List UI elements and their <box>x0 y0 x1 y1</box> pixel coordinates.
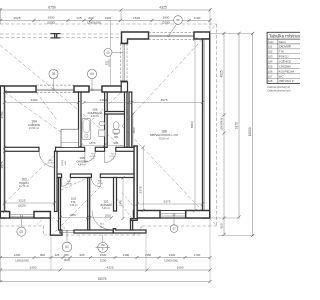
south wall pokoj segment a <box>0 212 9 219</box>
svg-text:725: 725 <box>76 16 81 20</box>
entry door mat dots <box>99 222 102 225</box>
svg-text:102: 102 <box>268 50 273 54</box>
interior horizontal dim living room south <box>137 203 202 205</box>
svg-text:850: 850 <box>220 223 224 228</box>
toilet <box>113 122 119 130</box>
porch outline bottom (dashed) <box>44 234 143 236</box>
north wall left wing segment b <box>74 86 89 92</box>
pantry diagonal 2 <box>116 198 133 220</box>
bathroom width dim <box>81 144 105 146</box>
living room south wall segment a <box>134 211 161 219</box>
utility room west wall <box>59 178 61 231</box>
svg-text:5375: 5375 <box>164 200 171 204</box>
hall south wall segment c <box>100 174 134 178</box>
wc-bathroom divider wall <box>105 92 108 147</box>
svg-text:11,76 m²: 11,76 m² <box>19 184 29 188</box>
window mark circle 02 with leader <box>17 227 26 236</box>
svg-text:(2625): (2625) <box>18 203 26 207</box>
svg-text:5,06 m²: 5,06 m² <box>102 207 110 210</box>
svg-text:06: 06 <box>176 18 180 22</box>
svg-text:Celková plocha [m²]: Celková plocha [m²] <box>267 85 290 89</box>
north wall left wing segment c <box>102 86 122 92</box>
pantry vertical dim <box>122 178 124 219</box>
svg-text:07: 07 <box>172 227 176 231</box>
wc north wall <box>105 112 127 115</box>
vestibule door arc and leaf <box>91 178 100 187</box>
porch window dot <box>66 231 68 233</box>
svg-text:1190: 1190 <box>123 253 130 257</box>
level mark circle with crosshair <box>98 242 108 252</box>
bottom dimension chain line 1 <box>0 257 210 259</box>
svg-text:Tabulka místností: Tabulka místností <box>269 34 300 39</box>
svg-text:CHODBA: CHODBA <box>279 64 291 68</box>
svg-text:(2000): (2000) <box>162 21 170 25</box>
svg-text:(1970): (1970) <box>97 183 103 185</box>
svg-text:1150: 1150 <box>145 253 152 257</box>
svg-text:T.M.: T.M. <box>279 50 285 54</box>
living room east wall inner finish line <box>204 39 206 211</box>
window mark circle 04 with leader <box>87 69 96 78</box>
extension line x210 top <box>209 8 211 33</box>
living room south window dot <box>173 214 175 216</box>
svg-text:1700: 1700 <box>194 253 201 257</box>
right dimension line 2 <box>238 33 240 217</box>
svg-text:3375: 3375 <box>139 186 143 193</box>
window mark circle 01 with leader <box>62 242 72 252</box>
extension line window dim x110 <box>110 20 112 86</box>
svg-text:4,84 m²: 4,84 m² <box>78 164 87 167</box>
svg-text:03: 03 <box>52 72 56 76</box>
svg-text:02: 02 <box>20 230 24 234</box>
svg-text:104: 104 <box>268 59 273 63</box>
svg-text:1100: 1100 <box>194 16 201 20</box>
svg-text:105: 105 <box>79 156 84 160</box>
entry door arc <box>92 211 111 230</box>
bathroom door arc and leaf <box>85 151 96 162</box>
middle wall segment 3 <box>95 147 104 151</box>
svg-text:101: 101 <box>268 45 273 49</box>
svg-text:Celková plocha bytu: Celková plocha bytu <box>267 89 291 93</box>
porch jog vertical wall <box>131 220 133 230</box>
interior horizontal dim chain bathroom <box>84 102 129 104</box>
svg-text:1380: 1380 <box>69 213 76 217</box>
svg-text:OBÝVACÍ POKOJ + KK: OBÝVACÍ POKOJ + KK <box>150 133 178 137</box>
svg-text:108: 108 <box>161 129 167 133</box>
pokoj door arc <box>39 151 56 167</box>
living room north window glazing lines <box>149 34 195 36</box>
svg-text:1200(1000): 1200(1000) <box>15 258 29 262</box>
roof overhang top edge (dashed) <box>0 23 217 25</box>
svg-text:2875: 2875 <box>0 161 4 168</box>
utility room door arc and leaf <box>62 178 71 187</box>
right dimension line 3 <box>252 33 254 235</box>
svg-text:105: 105 <box>268 64 273 68</box>
svg-text:900: 900 <box>113 141 118 145</box>
living room south window <box>160 213 186 215</box>
extension line bottom left <box>0 218 1 282</box>
west window jamb caps <box>120 42 127 44</box>
svg-text:LOŽNICE: LOŽNICE <box>279 58 291 63</box>
svg-text:1900: 1900 <box>105 16 112 20</box>
bathtub <box>82 119 91 140</box>
svg-text:2010: 2010 <box>105 213 112 217</box>
roof hip diagonal se <box>122 126 217 226</box>
vestibule width dim <box>90 217 112 219</box>
svg-text:WC: WC <box>114 136 118 139</box>
svg-text:1200(1000): 1200(1000) <box>87 20 101 24</box>
porch window <box>62 230 74 232</box>
living room west french window <box>120 44 122 82</box>
svg-text:3350: 3350 <box>30 266 37 270</box>
pergola edge line 2 (dashed) <box>0 37 122 39</box>
svg-text:ZÁDVEŘÍ: ZÁDVEŘÍ <box>279 44 291 49</box>
svg-text:3675: 3675 <box>161 98 168 102</box>
vestibule east wall <box>114 178 117 212</box>
room table top right <box>267 32 302 83</box>
bathroom west wall / bedroom east wall <box>79 92 82 147</box>
svg-text:1525: 1525 <box>133 16 140 20</box>
svg-text:2525: 2525 <box>14 16 21 20</box>
svg-text:WC: WC <box>279 74 284 78</box>
porch roof hip diagonal long <box>52 186 101 235</box>
svg-text:1500: 1500 <box>118 199 122 206</box>
roof hip diagonal ne <box>122 24 217 126</box>
wc east wall <box>125 92 128 147</box>
svg-text:(2020): (2020) <box>62 160 64 167</box>
svg-text:KOUPELNA: KOUPELNA <box>279 69 294 73</box>
washing machine <box>99 130 105 137</box>
porch south wall segment b <box>74 230 113 233</box>
extension line x121 top <box>120 11 122 20</box>
svg-text:106: 106 <box>268 69 273 73</box>
window mark circle 03 with leader <box>49 69 58 78</box>
extension line bottom right <box>209 218 211 282</box>
leader from circle 06 to window dot <box>169 24 177 35</box>
svg-text:04: 04 <box>90 72 94 76</box>
svg-text:900: 900 <box>40 253 45 257</box>
svg-text:(1000/900): (1000/900) <box>220 118 224 131</box>
svg-text:3225: 3225 <box>19 199 26 203</box>
living room west wall lower <box>134 146 137 219</box>
svg-text:1,46 m²: 1,46 m² <box>69 204 77 207</box>
svg-text:102: 102 <box>71 197 76 201</box>
svg-text:6750: 6750 <box>48 6 56 10</box>
bottom dimension chain line 2 <box>0 269 210 271</box>
interior vertical dim living room east <box>194 39 196 211</box>
svg-text:05: 05 <box>106 50 110 54</box>
svg-text:6,30 m²: 6,30 m² <box>91 115 100 118</box>
svg-text:13,50 m²: 13,50 m² <box>29 126 39 130</box>
middle wall bedroom-pokoj west part <box>5 147 40 151</box>
right dimension line 1 <box>223 33 225 234</box>
svg-text:[600]: [600] <box>64 258 70 262</box>
svg-text:425: 425 <box>55 253 60 257</box>
living room west wall upper block <box>121 82 127 92</box>
svg-text:3500: 3500 <box>177 266 184 270</box>
south wall pokoj segment b <box>34 212 50 219</box>
extension line porch east <box>145 233 147 271</box>
living room east wall <box>203 39 210 218</box>
svg-text:1500: 1500 <box>100 253 107 257</box>
svg-text:4325: 4325 <box>107 266 114 270</box>
svg-text:15075: 15075 <box>98 277 107 281</box>
pokoj east wall <box>55 151 58 211</box>
svg-text:01: 01 <box>65 245 69 249</box>
window in north wall <box>88 86 90 92</box>
utility room east wall <box>88 178 90 231</box>
svg-text:108: 108 <box>268 79 273 83</box>
roof valley diagonal left <box>5 92 79 144</box>
porch roof corner jog (dashed) <box>43 226 45 235</box>
porch south wall segment a <box>60 230 62 233</box>
north wall left wing segment a <box>0 86 36 92</box>
svg-text:1500: 1500 <box>132 127 136 134</box>
porch roof diagonal tm <box>61 178 88 191</box>
living room south wall segment b <box>186 211 210 219</box>
living room north window dashed lintel <box>149 32 195 34</box>
svg-text:101: 101 <box>103 200 108 204</box>
svg-text:1575: 1575 <box>89 141 96 145</box>
west wall <box>0 86 4 218</box>
washbasin <box>99 121 105 125</box>
svg-text:905: 905 <box>79 253 84 257</box>
svg-text:8300: 8300 <box>190 121 194 128</box>
interior horizontal dim chain bedroom <box>5 102 79 104</box>
shaft wall east of wc <box>129 92 132 147</box>
extension line right terrace <box>218 234 254 236</box>
svg-text:150: 150 <box>101 244 106 247</box>
svg-text:(2250): (2250) <box>107 59 111 67</box>
interior horizontal dim chain living room <box>132 102 203 104</box>
north opening marker dot <box>53 89 55 91</box>
interior vertical dim living room west <box>142 147 144 210</box>
svg-text:1900: 1900 <box>163 16 170 20</box>
svg-text:2200: 2200 <box>100 258 107 262</box>
svg-text:4025: 4025 <box>220 70 224 77</box>
roof overhang right edge (dashed) <box>216 24 218 226</box>
svg-text:(1970): (1970) <box>66 184 72 186</box>
pergola column <box>51 33 61 35</box>
north window marker dot <box>91 89 93 91</box>
wardrobe in bedroom corner <box>61 129 79 147</box>
roof overhang bottom right edge (dashed) <box>142 225 217 227</box>
svg-text:4400: 4400 <box>31 98 38 102</box>
svg-text:OBÝVACÍ P: OBÝVACÍ P <box>279 79 294 83</box>
porch corner hip diagonal se (dashed) <box>53 217 65 229</box>
wc interior vertical dim <box>132 114 134 147</box>
window mark circle 07 with leader <box>170 225 178 233</box>
svg-text:1200: 1200 <box>14 253 21 257</box>
south window pokoj <box>10 214 34 216</box>
porch jog horizontal wall <box>131 219 138 221</box>
svg-text:1300: 1300 <box>169 253 176 257</box>
svg-text:1900: 1900 <box>48 16 55 20</box>
svg-text:106: 106 <box>92 108 97 112</box>
utility room width dim <box>61 216 88 218</box>
middle wall segment 4 <box>116 147 134 151</box>
porch west edge <box>50 218 62 235</box>
wc door arc and leaf <box>105 151 116 162</box>
pokoj width dim <box>5 202 55 204</box>
svg-text:107: 107 <box>268 74 273 78</box>
roof hip diagonal nw <box>0 45 122 146</box>
extension line x0 top <box>0 8 1 24</box>
porch step wall east of entry <box>113 229 146 233</box>
svg-text:(1970): (1970) <box>47 163 53 165</box>
svg-text:1200(1000): 1200(1000) <box>164 258 178 262</box>
pantry diagonal 1 <box>122 193 137 211</box>
top dimension line total <box>0 9 210 11</box>
svg-text:600: 600 <box>64 253 69 257</box>
window mark circle 05 with leader <box>104 48 112 56</box>
svg-text:POKOJ: POKOJ <box>279 55 289 59</box>
top dimension line openings <box>0 19 210 21</box>
living room north wall segment a with corner pilaster <box>122 32 149 44</box>
hall south wall segment a <box>57 174 62 178</box>
roof hip diagonal sw <box>0 92 122 207</box>
svg-text:2100: 2100 <box>100 98 107 102</box>
svg-text:2750: 2750 <box>0 111 4 118</box>
bottom dimension total line <box>0 281 210 283</box>
svg-text:4325: 4325 <box>159 6 167 10</box>
window mark circle 06 <box>174 16 183 25</box>
interior vertical dim west <box>4 92 6 212</box>
middle wall segment between doors <box>56 147 85 151</box>
svg-text:103: 103 <box>268 55 273 59</box>
porch corner hip diagonal sw (dashed) <box>37 214 48 225</box>
wc width dim <box>107 144 124 146</box>
pokoj south window dot <box>20 215 22 217</box>
svg-text:10000: 10000 <box>248 127 252 136</box>
living room north wall segment b <box>194 32 210 39</box>
extension line porch west <box>50 236 52 271</box>
svg-text:9170: 9170 <box>235 122 239 129</box>
extension line right bottom wall <box>211 217 240 219</box>
extension line right top <box>210 32 254 34</box>
svg-text:35,60 m²: 35,60 m² <box>159 136 169 140</box>
svg-text:Název: Název <box>279 41 287 44</box>
north wall large opening glazing lines <box>36 88 74 90</box>
north wall large opening dashed lintel <box>36 84 74 86</box>
living room north window marker dot <box>168 35 170 37</box>
hall south wall segment b <box>70 174 91 178</box>
porch outline east hip (dashed) <box>134 227 143 236</box>
svg-text:(2000): (2000) <box>47 21 55 25</box>
svg-text:Číslo: Číslo <box>268 41 274 44</box>
roof overhang bottom left edge (dashed) <box>0 225 44 227</box>
pergola edge line 1 (dashed) <box>0 33 122 35</box>
roof short diagonal <box>36 92 57 120</box>
